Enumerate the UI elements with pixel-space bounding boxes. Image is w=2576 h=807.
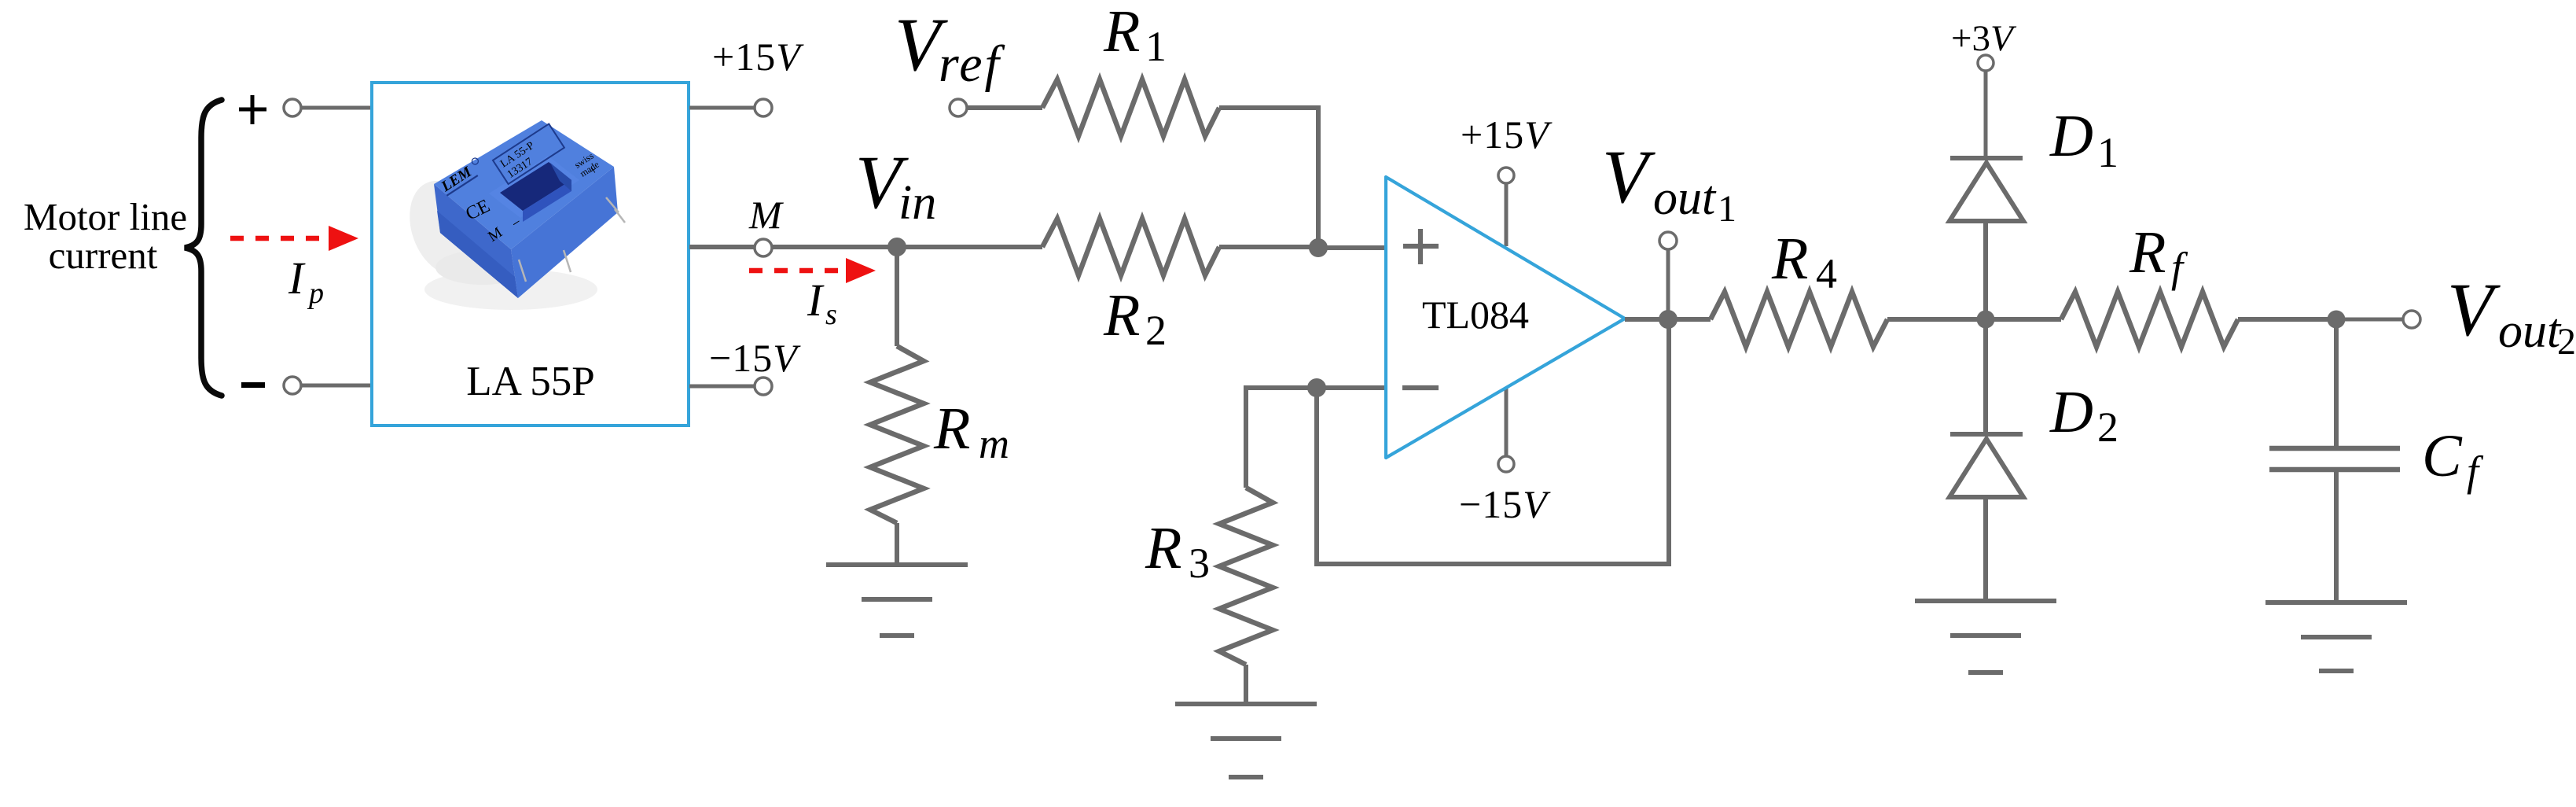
ground D2 <box>1915 601 2056 672</box>
label: Motor line current <box>24 195 187 277</box>
red arrow Ip <box>230 226 358 251</box>
label Rf <box>2129 219 2188 291</box>
label Ip <box>288 252 324 310</box>
shadow <box>397 171 492 285</box>
svg-text:current: current <box>49 234 158 277</box>
op-amp plus sign <box>1403 229 1439 264</box>
wire op-amp -15V supply <box>1505 387 1508 456</box>
node Vout2 dot <box>2328 311 2346 329</box>
wire inverting node to R3 <box>1246 388 1317 488</box>
feedback wire Vout1 to inverting node <box>1317 319 1669 564</box>
top face <box>434 120 614 249</box>
svg-text:s: s <box>825 298 837 331</box>
node diode junction dot <box>1977 311 1995 329</box>
svg-text:4: 4 <box>1816 250 1837 297</box>
plus terminal label <box>239 95 266 124</box>
LA 55P photo <box>397 120 625 310</box>
label R4 <box>1771 226 1837 297</box>
wire op-amp +15V supply <box>1505 183 1508 246</box>
label D2 <box>2049 379 2118 451</box>
terminal circle -15V left <box>755 378 772 395</box>
wire plus-terminal to box <box>301 106 373 110</box>
node J2 dot <box>1307 378 1326 397</box>
wire +3V to D1 <box>1984 71 1988 158</box>
node M circle <box>755 239 772 256</box>
wire op-amp output to R4 <box>1625 317 1711 322</box>
hole rim <box>489 156 579 218</box>
svg-text:M: M <box>748 193 784 237</box>
svg-text:out: out <box>2498 304 2562 358</box>
resistor Rm <box>870 346 924 523</box>
right face <box>511 167 618 298</box>
terminal circle Vout1 <box>1659 232 1677 249</box>
svg-text:V: V <box>1602 134 1655 219</box>
svg-text:C: C <box>2422 423 2463 489</box>
terminal circle Vref <box>950 99 967 116</box>
svg-text:f: f <box>2467 448 2484 495</box>
wire box to +15V terminal <box>689 106 755 110</box>
brace left <box>185 100 222 396</box>
terminal circle op -15V <box>1498 456 1514 472</box>
svg-text:D: D <box>2049 103 2093 169</box>
pins <box>519 197 625 282</box>
wire Vout2 node to terminal <box>2336 318 2403 322</box>
svg-text:V: V <box>2447 267 2501 352</box>
op-amp U1 TL084 <box>1386 177 1625 458</box>
front face <box>434 184 518 298</box>
svg-text:+15V: +15V <box>1461 112 1553 157</box>
resistor R4 <box>1711 292 1887 347</box>
wire D2 to ground <box>1983 496 1988 599</box>
op-amp minus sign <box>1402 385 1439 390</box>
svg-text:R: R <box>1771 226 1808 292</box>
label Is <box>807 275 837 331</box>
node Vin dot <box>887 238 906 256</box>
diode D2 <box>1949 434 2023 497</box>
label Vout1 <box>1602 134 1736 230</box>
terminal circle op +15V <box>1498 168 1514 183</box>
svg-text:3: 3 <box>1189 540 1210 587</box>
wire J1 to op-amp plus input <box>1318 245 1388 250</box>
wire Vin to Rm <box>895 247 899 346</box>
svg-text:LA 55P: LA 55P <box>466 359 594 404</box>
svg-text:f: f <box>2171 244 2188 291</box>
terminal circle plus <box>284 99 301 116</box>
wire minus-terminal to box <box>301 384 373 388</box>
terminal circle +3V <box>1978 55 1994 71</box>
device markings <box>438 123 601 245</box>
terminal circle Vout2 <box>2403 311 2420 328</box>
terminal circle +15V left <box>755 99 772 116</box>
svg-text:1: 1 <box>2097 129 2118 176</box>
wire R3 to ground <box>1244 665 1248 704</box>
resistor R3 <box>1219 488 1273 665</box>
svg-text:I: I <box>288 252 306 304</box>
label R1 <box>1103 0 1167 70</box>
wire R4 to diode node <box>1887 317 1986 322</box>
svg-text:−15V: −15V <box>709 336 801 380</box>
svg-text:I: I <box>807 275 825 326</box>
node J1 dot <box>1309 238 1328 257</box>
svg-text:2: 2 <box>1145 307 1167 354</box>
wire Vout2 node to Cf <box>2334 319 2339 446</box>
svg-text:1: 1 <box>1145 23 1167 70</box>
svg-text:1: 1 <box>1718 188 1736 230</box>
terminal circle minus <box>284 377 301 394</box>
wire R1 to node, corner down <box>1219 108 1318 248</box>
resistor Rf <box>2061 292 2238 347</box>
ground Cf <box>2265 602 2407 671</box>
ground R3 <box>1175 704 1317 777</box>
svg-text:2: 2 <box>2557 321 2576 363</box>
svg-text:R: R <box>1103 0 1140 64</box>
svg-text:out: out <box>1653 171 1717 225</box>
diode D1 <box>1949 158 2023 221</box>
svg-text:R: R <box>933 396 970 462</box>
label R2 <box>1103 282 1167 354</box>
svg-text:in: in <box>898 176 936 230</box>
svg-text:+15V: +15V <box>712 35 804 79</box>
svg-text:ref: ref <box>939 35 1005 93</box>
wire Rm to ground <box>895 523 899 563</box>
node Vout1 dot <box>1659 310 1678 329</box>
label Vref <box>895 2 1005 93</box>
hole <box>500 162 571 211</box>
label D1 <box>2049 103 2118 176</box>
svg-text:Motor line: Motor line <box>24 195 187 238</box>
svg-text:2: 2 <box>2097 403 2118 451</box>
label Vout2 <box>2447 267 2576 363</box>
wire Cf to ground <box>2334 472 2339 601</box>
wire M row: box to R2 <box>689 245 1042 249</box>
svg-text:R: R <box>1103 282 1140 348</box>
svg-text:TL084: TL084 <box>1422 293 1529 337</box>
svg-text:R: R <box>1145 515 1181 581</box>
label Cf <box>2422 423 2484 495</box>
label R3 <box>1145 515 1210 587</box>
ground Rm <box>826 565 968 636</box>
wire D1 to D2 <box>1983 219 1988 434</box>
svg-text:−15V: −15V <box>1459 482 1551 526</box>
wire inverting node to op-amp minus input <box>1317 385 1388 390</box>
svg-text:+3V: +3V <box>1951 18 2017 59</box>
svg-text:m: m <box>979 420 1009 467</box>
svg-text:R: R <box>2129 219 2166 286</box>
resistor R2 <box>1042 219 1219 275</box>
svg-text:p: p <box>307 277 324 310</box>
capacitor Cf <box>2269 448 2400 470</box>
LA 55P box <box>372 83 689 426</box>
wire Vout1 node to terminal <box>1666 249 1670 311</box>
minus terminal label <box>241 382 265 388</box>
red arrow Is <box>749 258 876 283</box>
label Rm <box>933 396 1009 467</box>
wire Rf to Vout2 <box>2238 317 2336 322</box>
label Vin <box>855 140 936 230</box>
wire R2 to node J1 <box>1219 245 1318 249</box>
svg-text:D: D <box>2049 379 2093 445</box>
resistor R1 <box>1042 79 1219 136</box>
wire diode node to Rf <box>1986 317 2061 322</box>
wire Vref to R1 <box>967 105 1042 110</box>
wire box to -15V terminal <box>689 385 755 389</box>
